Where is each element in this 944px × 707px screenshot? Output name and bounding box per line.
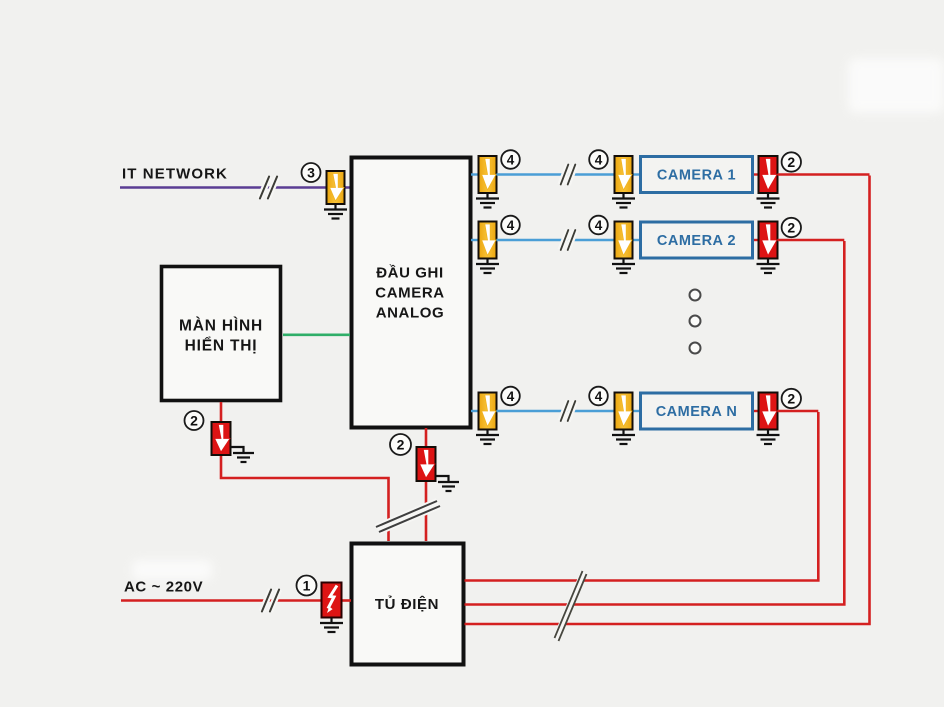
camera box CAMERA 1 [641, 157, 753, 193]
circled number 4 (left, camera N) [501, 387, 520, 406]
ground (SPD4b camera 1) [612, 193, 635, 208]
wire camera N power feed (red) [778, 410, 819, 412]
svg-text:CAMERA N: CAMERA N [656, 404, 738, 420]
ground (SPD4a camera N) [476, 430, 499, 445]
svg-text:AC ~ 220V: AC ~ 220V [124, 579, 203, 596]
svg-text:ANALOG: ANALOG [376, 305, 445, 322]
wire camera 2 power feed (red) [778, 239, 845, 241]
ground (SPD2 camera N) [757, 430, 780, 445]
svg-text:4: 4 [595, 152, 603, 167]
continuation dots (more cameras) [690, 290, 701, 354]
svg-text:3: 3 [307, 165, 315, 181]
surge arrester SPD2 (camera N power, red) [759, 393, 778, 430]
svg-text:HIỂN THỊ: HIỂN THỊ [185, 337, 258, 355]
wire camera 1 to SPD2 (red) [754, 173, 759, 175]
wire camera N to SPD2 (red) [754, 410, 759, 412]
wire SPD4b to camera 1 box (blue) [632, 173, 641, 175]
break mark on video line camera N [561, 401, 576, 421]
ground (SPD4a camera 1) [476, 193, 499, 208]
circled number 2 (recorder SPD) [390, 434, 411, 455]
svg-text:2: 2 [190, 413, 198, 429]
surge arrester SPD4a (video line camera N, yellow) [479, 393, 497, 430]
cabinet box TU DIEN [352, 544, 464, 665]
wire SPD4b to camera 2 box (blue) [632, 239, 641, 241]
svg-text:2: 2 [787, 154, 795, 170]
ground (SPD3) [324, 204, 347, 219]
circled number 4 (left, camera 2) [501, 216, 520, 235]
circled number 4 (right, camera N) [589, 387, 608, 406]
svg-text:CAMERA 1: CAMERA 1 [657, 168, 736, 184]
svg-text:4: 4 [595, 389, 603, 404]
ground (SPD4b camera 2) [612, 259, 635, 274]
break mark on video line camera 2 [561, 230, 576, 250]
svg-text:ĐẦU GHI: ĐẦU GHI [376, 265, 444, 282]
ground (SPD2 camera 2) [757, 259, 780, 274]
break mark on video line camera 1 [561, 165, 576, 185]
svg-text:2: 2 [787, 220, 795, 236]
wire recorder to SPD4a row N (blue) [471, 410, 480, 412]
circled number 1 [297, 576, 317, 596]
surge arrester SPD2 (camera 2 power, red) [759, 222, 778, 259]
surge arrester SPD4a (video line camera 2, yellow) [479, 222, 497, 259]
wire AC 220V mains (red) [121, 599, 322, 602]
recorder box DAU GHI CAMERA ANALOG [352, 158, 471, 428]
surge arrester SPD4a (video line camera 1, yellow) [479, 156, 497, 193]
wire recorder power to cabinet (red) [425, 428, 428, 541]
circled number 4 (right, camera 2) [589, 216, 608, 235]
surge arrester SPD2 (camera 1 power, red) [759, 156, 778, 193]
wire monitor power to cabinet (red) [221, 402, 389, 541]
break mark on AC line [262, 590, 279, 612]
circled number 2 (camera 2) [782, 218, 801, 237]
wire video line camera 2 (blue) [497, 239, 616, 241]
surge arrester SPD2 (monitor power, red) [212, 422, 231, 455]
wire video line camera 1 (blue) [497, 173, 616, 175]
wire SPD1 to cabinet (red) [342, 599, 351, 602]
svg-text:CAMERA: CAMERA [375, 285, 444, 302]
svg-text:MÀN HÌNH: MÀN HÌNH [179, 318, 263, 335]
svg-text:TỦ ĐIỆN: TỦ ĐIỆN [375, 595, 439, 613]
break mark on cabinet feed wires [376, 501, 440, 532]
surge arrester SPD2 (recorder power, red) [417, 447, 436, 481]
svg-text:2: 2 [397, 437, 405, 453]
camera box CAMERA N [641, 393, 753, 429]
ground (SPD4b camera N) [612, 430, 635, 445]
wire IT NETWORK line [120, 186, 350, 189]
surge arrester SPD3 (IT network, yellow) [327, 171, 345, 204]
ground (recorder SPD) [436, 476, 460, 491]
break mark on IT NETWORK line [260, 177, 277, 199]
svg-text:CAMERA 2: CAMERA 2 [657, 233, 736, 249]
svg-text:4: 4 [507, 389, 515, 404]
wire camera 2 to SPD2 (red) [754, 239, 759, 241]
svg-text:2: 2 [787, 391, 795, 407]
camera box CAMERA 2 [641, 222, 753, 258]
ground (monitor SPD) [231, 447, 255, 462]
wire cabinet to camera 1 power (red) [465, 176, 870, 625]
surge arrester SPD4b (camera 1 side, yellow) [615, 156, 633, 193]
wire cabinet to camera 2 power (red) [465, 241, 845, 605]
wire video line camera N (blue) [497, 410, 616, 412]
svg-text:IT NETWORK: IT NETWORK [122, 166, 228, 183]
surge arrester SPD4b (camera 2 side, yellow) [615, 222, 633, 259]
surge arrester SPD1 (AC mains, lightning) [322, 583, 342, 618]
circled number 4 (left, camera 1) [501, 150, 520, 169]
wire SPD4b to camera N box (blue) [632, 410, 641, 412]
circled number 2 (camera 1) [782, 152, 801, 171]
circled number 3 [302, 163, 321, 182]
ground (SPD1) [320, 618, 343, 633]
surge arrester SPD4b (camera N side, yellow) [615, 393, 633, 430]
circled number 2 (monitor SPD) [185, 411, 204, 430]
wire cabinet to camera N power (red) [465, 412, 819, 581]
ground (SPD2 camera 1) [757, 193, 780, 208]
circled number 4 (right, camera 1) [589, 150, 608, 169]
wire monitor to recorder (green) [283, 333, 350, 336]
ground (SPD4a camera 2) [476, 259, 499, 274]
monitor box MAN HINH HIEN THI [162, 267, 281, 401]
wire camera 1 power feed (red) [778, 173, 870, 175]
svg-text:4: 4 [507, 152, 515, 167]
wire recorder to SPD4a row 2 (blue) [471, 239, 480, 241]
circled number 2 (camera N) [782, 389, 801, 408]
wire recorder to SPD4a row 1 (blue) [471, 173, 480, 175]
svg-text:4: 4 [595, 218, 603, 233]
svg-text:1: 1 [303, 578, 311, 594]
svg-text:4: 4 [507, 218, 515, 233]
break mark on cabinet output power lines [555, 571, 587, 641]
